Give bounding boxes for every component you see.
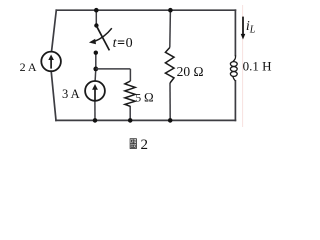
svg-text:2: 2	[141, 137, 149, 153]
svg-text:5 Ω: 5 Ω	[135, 89, 153, 104]
svg-text:2 A: 2 A	[20, 60, 37, 74]
svg-text:0.1 H: 0.1 H	[243, 58, 272, 73]
svg-text:t=0: t=0	[113, 36, 134, 51]
svg-text:3 A: 3 A	[62, 87, 80, 101]
svg-text:20 Ω: 20 Ω	[177, 64, 204, 79]
